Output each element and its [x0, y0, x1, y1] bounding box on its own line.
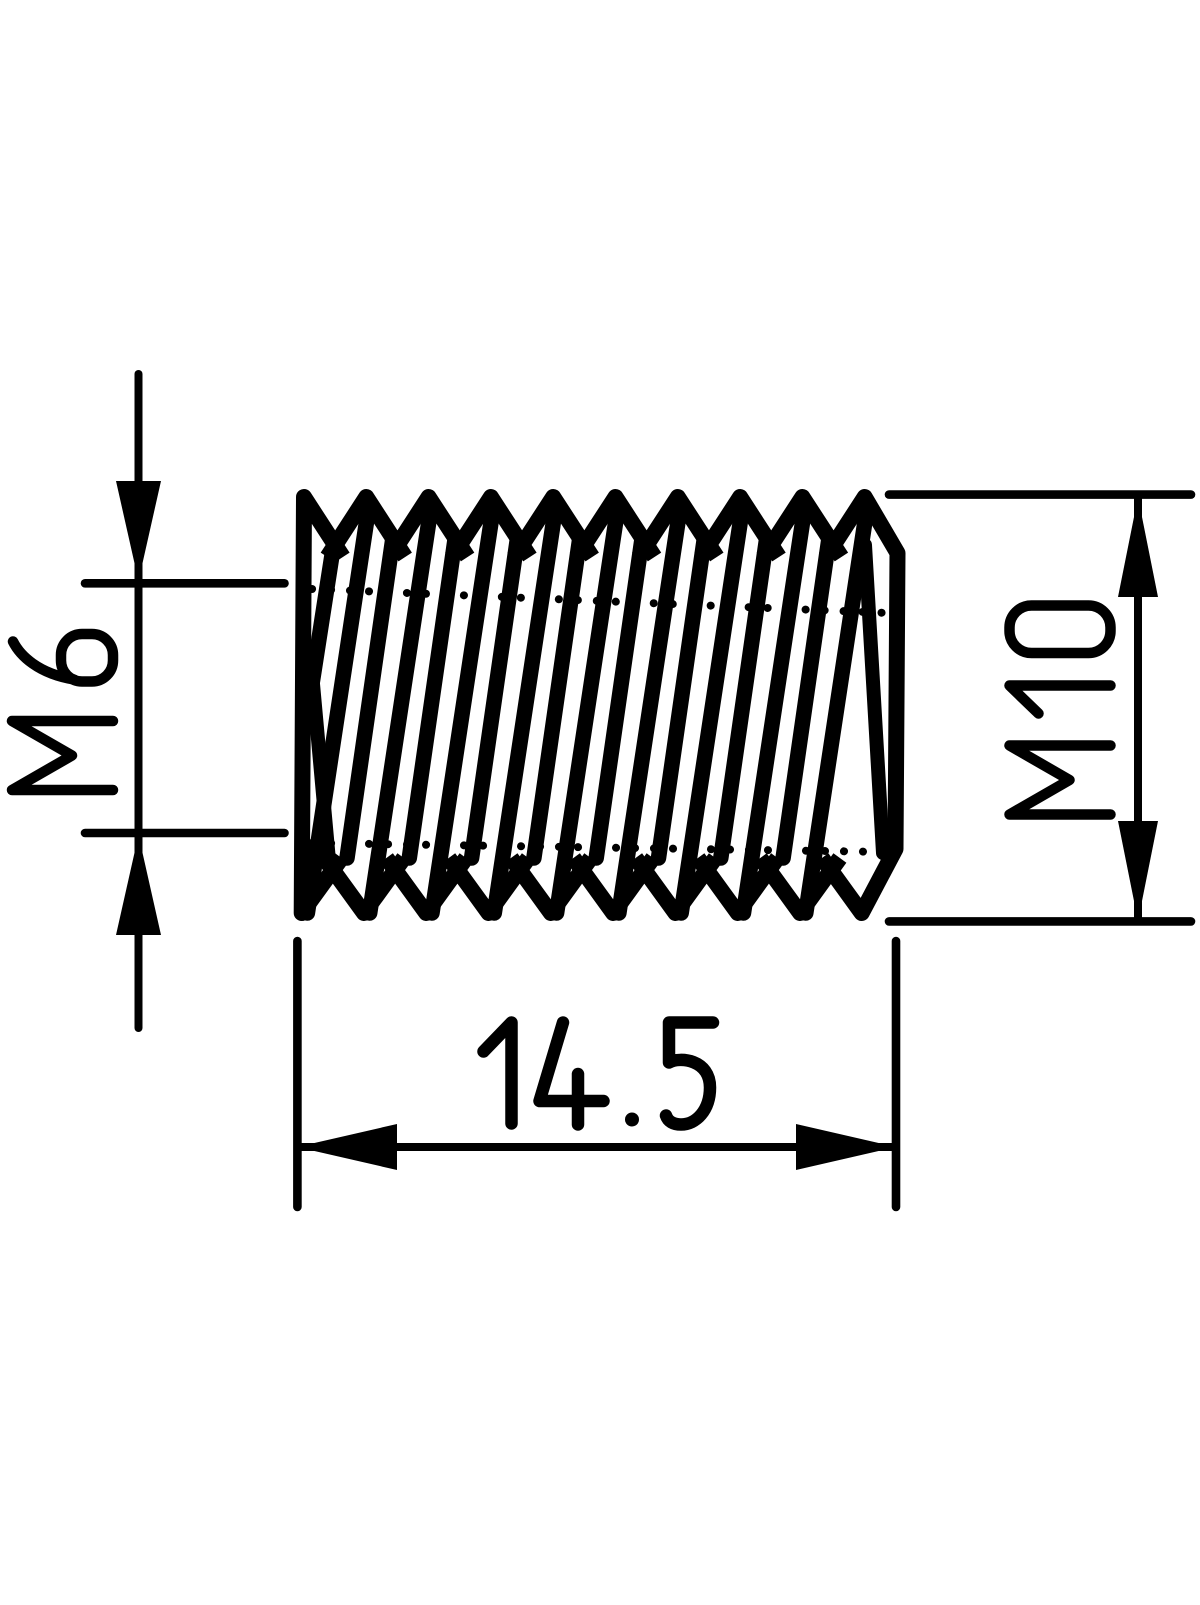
body left inner flank line	[313, 684, 330, 866]
label 14.5	[484, 1023, 714, 1127]
dimension M10: top arrowhead	[1118, 497, 1158, 597]
dimension 14.5: left arrowhead	[297, 1124, 397, 1170]
thread front-flank lines from crest valleys	[312, 541, 334, 682]
dimension 14.5: dimension line	[298, 1143, 895, 1151]
dimension M10: bottom arrowhead	[1118, 821, 1158, 921]
body right boundary (edge with corner legs)	[822, 497, 898, 913]
dimension M10: extension lines	[889, 490, 1191, 499]
dimension M6: extension lines	[85, 579, 285, 588]
dimension 14.5: extension lines	[293, 941, 302, 1207]
body left boundary (edge with first crest tips)	[302, 497, 343, 913]
body right inner flank line	[865, 545, 883, 853]
label M6 (rotated)	[12, 634, 113, 790]
top thread crest zigzag	[327, 497, 405, 557]
dimension 14.5: right arrowhead	[796, 1124, 896, 1170]
label M10 (rotated)	[1010, 606, 1111, 815]
dimension M6: dimension line	[135, 374, 143, 1028]
dimension M6: top arrowhead	[116, 481, 161, 581]
thread back-flank lines from crest apexes	[307, 506, 369, 913]
dimension M10: dimension line	[1134, 498, 1142, 918]
bottom thread crest zigzag	[324, 858, 404, 913]
dimension M6: bottom arrowhead	[116, 835, 161, 935]
threaded body: hidden (dotted) lines for internal M6 bore	[312, 589, 888, 613]
